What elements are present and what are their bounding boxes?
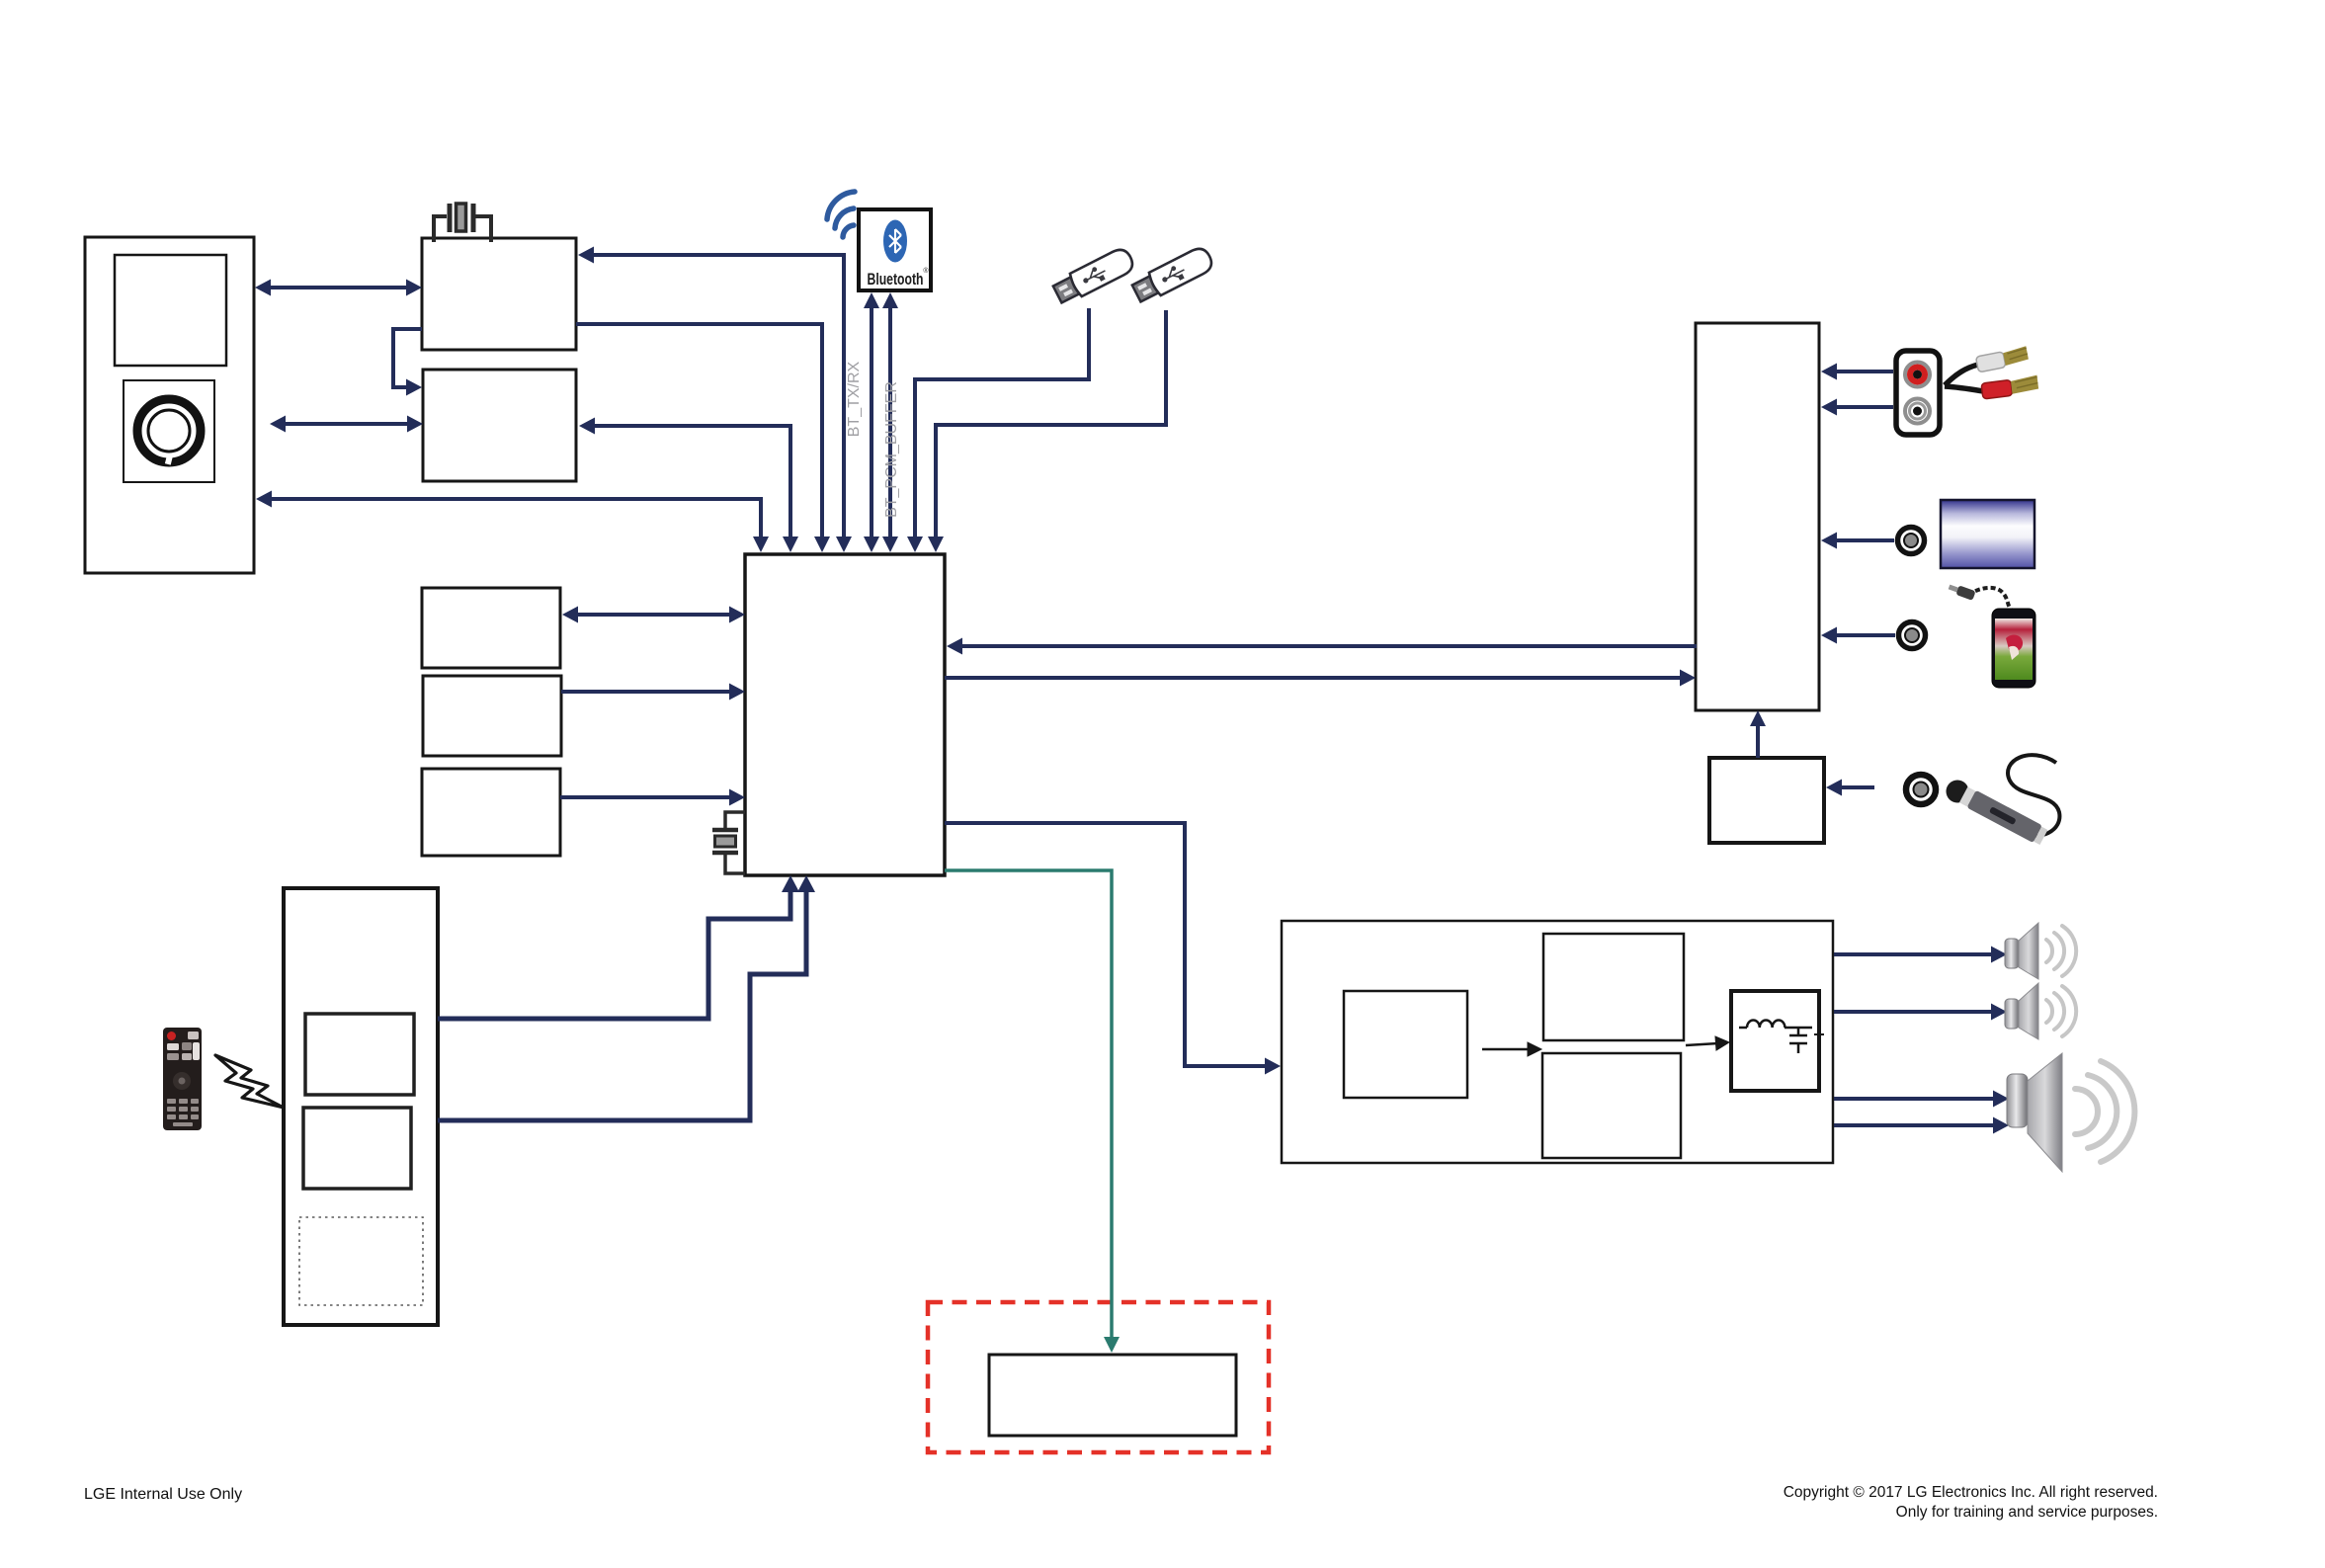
block A (key) bbox=[422, 588, 560, 668]
wire block C to MCU bbox=[560, 795, 733, 799]
arrowheads up into Bluetooth box bbox=[864, 292, 879, 308]
block C bbox=[422, 769, 560, 856]
wire USB2 to MCU top bbox=[936, 310, 1166, 540]
wire U1 right lower to MCU top (x=832) bbox=[576, 324, 822, 541]
wire controller line B to MCU bottom bbox=[438, 888, 806, 1120]
wire RCA L to selector bbox=[1834, 370, 1893, 373]
amp input block bbox=[1344, 991, 1467, 1098]
aux port circle 1 bbox=[1898, 528, 1925, 554]
block U1 (top, with crystal) bbox=[422, 238, 576, 350]
svg-text:Only for training and service: Only for training and service purposes. bbox=[1896, 1504, 2158, 1521]
Bluetooth logo oval bbox=[883, 220, 907, 263]
arrowheads front-panel/U1 bbox=[255, 280, 271, 296]
wire mic amp to selector bbox=[1756, 722, 1760, 758]
amp block bottom bbox=[1542, 1053, 1681, 1158]
wireless arcs beside Bluetooth box bbox=[827, 192, 855, 237]
controller inner block 1 bbox=[305, 1014, 414, 1095]
RCA cable plugs bbox=[1945, 346, 2039, 399]
red dashed option area bbox=[928, 1302, 1269, 1452]
wire RCA R to selector bbox=[1834, 405, 1893, 409]
wire mic port to mic amp bbox=[1839, 785, 1874, 789]
arrowheads front-panel/U2 bbox=[270, 416, 286, 433]
svg-text:BT_PCM_BUFFER: BT_PCM_BUFFER bbox=[883, 381, 900, 518]
aux port circle 2 bbox=[1899, 622, 1926, 649]
crystal X1 above block U1 bbox=[434, 204, 491, 242]
block U2 (below U1) bbox=[423, 370, 576, 481]
wire USB1 to MCU top bbox=[915, 308, 1089, 540]
wire block A to MCU (bidirectional) bbox=[572, 613, 733, 617]
arrowhead phone into selector bbox=[1821, 627, 1837, 644]
LC filter symbol bbox=[1739, 1021, 1824, 1053]
wire controller line A to MCU bottom bbox=[438, 888, 790, 1019]
portable player (gradient box) bbox=[1941, 500, 2034, 568]
svg-text:Bluetooth: Bluetooth bbox=[868, 270, 924, 289]
wire MCU to selector (y=686) bbox=[945, 676, 1684, 680]
jog dial knob bbox=[137, 399, 201, 465]
remote control bbox=[163, 1028, 202, 1130]
LC output filter box bbox=[1731, 991, 1819, 1091]
wire amp to woofer lower bbox=[1834, 1123, 1996, 1127]
svg-text:®: ® bbox=[923, 267, 929, 275]
svg-text:Copyright © 2017 LG Electronic: Copyright © 2017 LG Electronics Inc. All… bbox=[1784, 1484, 2158, 1501]
arrowhead into U2 y=431 bbox=[579, 418, 595, 435]
wire front-panel to U1 (bidirectional) bbox=[265, 286, 413, 289]
wire amp to speaker 1 bbox=[1834, 952, 1994, 956]
wire Bluetooth line BT_PCM_BUFFER bbox=[888, 304, 892, 540]
arrowhead block B into MCU bbox=[729, 684, 745, 701]
arrowheads block A double bbox=[562, 607, 578, 623]
black arrow amp stage 1 bbox=[1482, 1036, 1729, 1056]
wire selector to MCU (y=654) bbox=[958, 644, 1697, 648]
wire front-panel to U2 (bidirectional) bbox=[281, 422, 413, 426]
arrowhead into U1 y=258 bbox=[578, 247, 594, 264]
wire U1-U2 left bracket bbox=[393, 329, 422, 387]
arrowhead mic into mic amp bbox=[1826, 780, 1842, 796]
wire MCU to red dashed block (teal) bbox=[945, 870, 1112, 1338]
wire phone port to selector bbox=[1834, 633, 1895, 637]
arrowheads controller lines into MCU bottom bbox=[782, 875, 799, 892]
front panel unit (left tall box) bbox=[85, 237, 254, 573]
controller inner block 2 bbox=[303, 1108, 411, 1189]
arrowhead block C into MCU bbox=[729, 789, 745, 806]
wire Bluetooth line BT_TX/RX bbox=[870, 304, 873, 540]
bottom-left controller box (tall) bbox=[284, 888, 438, 1325]
arrowhead into selector y=686 bbox=[1680, 670, 1696, 687]
line-out / selector box (right tall) bbox=[1696, 323, 1819, 710]
main MCU block (centre) bbox=[745, 554, 945, 875]
smartphone with aux cable bbox=[1948, 582, 2035, 688]
woofer (large speaker) bbox=[2007, 1053, 2134, 1172]
arrowhead into front panel y=505 bbox=[256, 491, 272, 508]
block inside red dashed area bbox=[989, 1355, 1236, 1436]
amp block top bbox=[1543, 934, 1684, 1040]
display window inside front panel bbox=[115, 255, 226, 366]
wire MCU to power amp (elbow) bbox=[945, 823, 1268, 1066]
arrowhead bracket into U2 bbox=[406, 379, 422, 396]
speaker small 2 bbox=[2005, 983, 2076, 1039]
microphone bbox=[1947, 755, 2060, 846]
mic port circle bbox=[1906, 775, 1936, 804]
Bluetooth module box bbox=[859, 209, 931, 290]
arrowhead teal into red dashed block bbox=[1104, 1337, 1120, 1353]
RCA jack plate bbox=[1896, 351, 1940, 435]
black arrow amp stage 2 bbox=[1686, 1043, 1718, 1045]
speaker small 1 bbox=[2005, 923, 2076, 979]
arrowhead mic amp up into selector bbox=[1750, 710, 1766, 726]
USB stick 1 bbox=[1051, 246, 1136, 306]
IR lightning bolt bbox=[215, 1055, 284, 1108]
wire aux port to selector bbox=[1834, 538, 1894, 542]
power amp outer box bbox=[1282, 921, 1833, 1163]
arrowhead into power amp bbox=[1265, 1058, 1281, 1075]
svg-text:LGE Internal Use Only: LGE Internal Use Only bbox=[84, 1486, 242, 1503]
wire amp to woofer upper bbox=[1834, 1097, 1996, 1101]
svg-text:BT_TX/RX: BT_TX/RX bbox=[846, 361, 863, 437]
block B bbox=[423, 676, 561, 756]
jog dial frame inside front panel bbox=[124, 380, 214, 482]
arrowhead selector line into MCU bbox=[947, 638, 962, 655]
wire U1 right to MCU top (x=854) bbox=[589, 255, 844, 541]
arrowheads MCU top row bbox=[753, 536, 769, 552]
USB stick 2 bbox=[1130, 245, 1215, 305]
crystal X2 at MCU left side bbox=[712, 812, 745, 873]
wire front-panel to MCU (elbow via x=770) bbox=[267, 499, 761, 541]
arrowheads RCA into selector bbox=[1821, 364, 1837, 380]
arrowhead aux into selector bbox=[1821, 533, 1837, 549]
wire U2 right to MCU top (x=800) bbox=[590, 426, 790, 541]
wire amp to speaker 2 bbox=[1834, 1010, 1994, 1014]
arrowheads into speakers bbox=[1991, 947, 2007, 963]
dotted option block bbox=[299, 1217, 423, 1305]
wire block B to MCU bbox=[561, 690, 733, 694]
mic amp box bbox=[1709, 758, 1824, 843]
